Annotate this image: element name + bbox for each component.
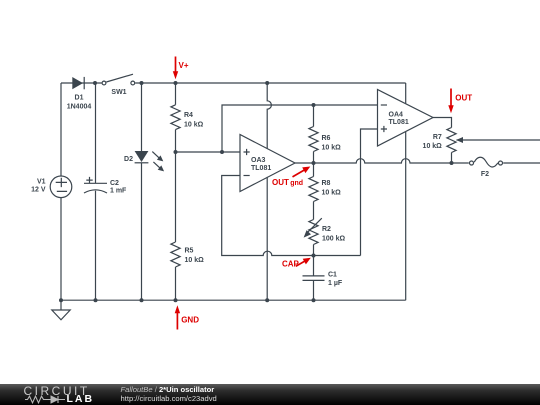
node R5 gnd	[174, 298, 178, 302]
potentiometer R2	[304, 218, 346, 244]
svg-text:1 mF: 1 mF	[110, 188, 127, 195]
svg-text:10 kΩ: 10 kΩ	[184, 122, 204, 129]
wire C1 bottom plate to ground rail	[313, 280, 315, 300]
node OA3 V- gnd	[265, 298, 269, 302]
wire OA3 noninverting input from divider	[176, 151, 241, 153]
wire feedback top: OA3 +in node up and across to OA4 inverting input	[222, 105, 378, 152]
wire R2 to CAP node	[313, 245, 315, 256]
wire OA4 noninverting input from CAP row	[361, 129, 378, 256]
svg-text:R6: R6	[322, 135, 331, 142]
CircuitLab logo text LAB	[67, 394, 95, 405]
resistor R5	[171, 242, 204, 267]
capacitor C1	[303, 271, 343, 287]
svg-text:R5: R5	[185, 248, 194, 255]
svg-text:10 kΩ: 10 kΩ	[322, 189, 342, 196]
op-amp OA4	[378, 90, 434, 147]
svg-text:100 kΩ: 100 kΩ	[322, 235, 346, 242]
svg-text:gnd: gnd	[290, 180, 303, 187]
fuse F2	[470, 157, 503, 178]
CircuitLab logo text CIRCUIT	[24, 385, 90, 397]
svg-text:OUT: OUT	[455, 94, 472, 103]
svg-text:OUT: OUT	[272, 178, 289, 187]
svg-text:OA3: OA3	[251, 157, 266, 164]
net flag GND (red arrow)	[175, 305, 200, 329]
svg-text:12 V: 12 V	[31, 186, 46, 193]
LED D2	[124, 151, 164, 171]
svg-text:1N4004: 1N4004	[67, 104, 92, 111]
wire bottom ground rail	[61, 299, 406, 301]
wire R6 to OUTgnd node	[313, 152, 315, 177]
wire R4/R5 branch	[175, 83, 177, 105]
footer line 2: url	[121, 394, 217, 403]
svg-text:F2: F2	[481, 171, 489, 178]
svg-text:1 µF: 1 µF	[328, 280, 343, 287]
svg-text:OA4: OA4	[389, 111, 404, 118]
node CAP	[312, 254, 316, 258]
svg-text:V+: V+	[179, 61, 189, 70]
wire OA3 inverting input loop down to CAP node row	[222, 176, 361, 256]
resistor R4	[171, 105, 204, 130]
svg-text:TL081: TL081	[389, 119, 409, 126]
diode D1	[67, 77, 92, 111]
switch SW1	[102, 74, 135, 96]
wire OA4 output to R7 top	[433, 118, 452, 128]
svg-text:R4: R4	[184, 112, 193, 119]
svg-text:TL081: TL081	[251, 165, 271, 172]
svg-text:10 kΩ: 10 kΩ	[423, 143, 443, 150]
wire CAP node to C1 top plate	[313, 256, 315, 276]
node +in junction	[220, 150, 224, 154]
wire OA3 V+ supply stub with hop over horizontal wire	[267, 83, 271, 149]
capacitor C2	[84, 177, 127, 195]
wire R6/R8 column top connection	[313, 105, 315, 127]
net label OUTgnd (red arrow)	[272, 167, 310, 188]
wire OA3 V- supply stub down to ground rail	[266, 177, 268, 300]
node R7 bottom	[450, 161, 454, 165]
wire OA4 V+ supply stub	[405, 83, 407, 103]
net label CAP (red arrow)	[282, 258, 311, 269]
net flag OUT (red arrow)	[448, 89, 472, 114]
svg-text:R7: R7	[433, 134, 442, 141]
wire from fuse F2 to right edge	[503, 162, 540, 164]
svg-text:SW1: SW1	[111, 89, 126, 96]
potentiometer R7	[423, 128, 463, 153]
wire left column V1 branch	[60, 83, 62, 176]
svg-text:10 kΩ: 10 kΩ	[322, 144, 342, 151]
CircuitLab logo resistor+diode glyph	[25, 395, 67, 404]
node D1-SW1-C2	[93, 81, 97, 85]
svg-text:R2: R2	[322, 226, 331, 233]
wire top V+ rail left segment (D1 anode side)	[61, 82, 102, 84]
svg-text:C1: C1	[328, 271, 337, 278]
node V+	[174, 81, 178, 85]
resistor R8	[309, 177, 341, 202]
svg-text:CAP: CAP	[282, 259, 300, 268]
node R6 top	[312, 103, 316, 107]
wire R8 to R2	[313, 202, 315, 220]
wire top V+ rail right segment from switch to OA4 V+ corner	[135, 82, 406, 84]
resistor R6	[309, 127, 341, 152]
svg-text:C2: C2	[110, 180, 119, 187]
svg-text:D2: D2	[124, 156, 133, 163]
wire D2 branch	[141, 83, 143, 151]
wire R7 wiper to right edge	[457, 139, 540, 141]
net flag V+ (red arrow)	[173, 57, 189, 80]
wire OA3 output row to R7 bottom with hops	[295, 159, 452, 163]
footer line 1: author / title	[121, 385, 215, 394]
svg-text:D1: D1	[75, 95, 84, 102]
wire C2 branch	[95, 83, 97, 183]
svg-text:10 kΩ: 10 kΩ	[185, 257, 205, 264]
node D2 tap	[140, 81, 144, 85]
wire R7 bottom lead	[451, 153, 453, 164]
footer bar	[0, 384, 540, 405]
wire from R7 bottom node to fuse F2	[452, 162, 469, 164]
svg-text:GND: GND	[181, 315, 199, 324]
node OUTgnd	[312, 161, 316, 165]
node C2 gnd	[94, 298, 98, 302]
node C1 gnd	[312, 298, 316, 302]
node D2 gnd	[140, 298, 144, 302]
node OA3 V+ tap	[265, 81, 269, 85]
svg-text:V1: V1	[37, 179, 46, 186]
op-amp OA3	[240, 135, 295, 192]
node divider mid	[174, 150, 178, 154]
ground symbol	[52, 300, 70, 320]
wire OA4 V- supply stub down to ground rail	[405, 132, 407, 301]
node gnd corner	[59, 298, 63, 302]
svg-text:R8: R8	[322, 180, 331, 187]
voltage source V1	[31, 176, 72, 198]
